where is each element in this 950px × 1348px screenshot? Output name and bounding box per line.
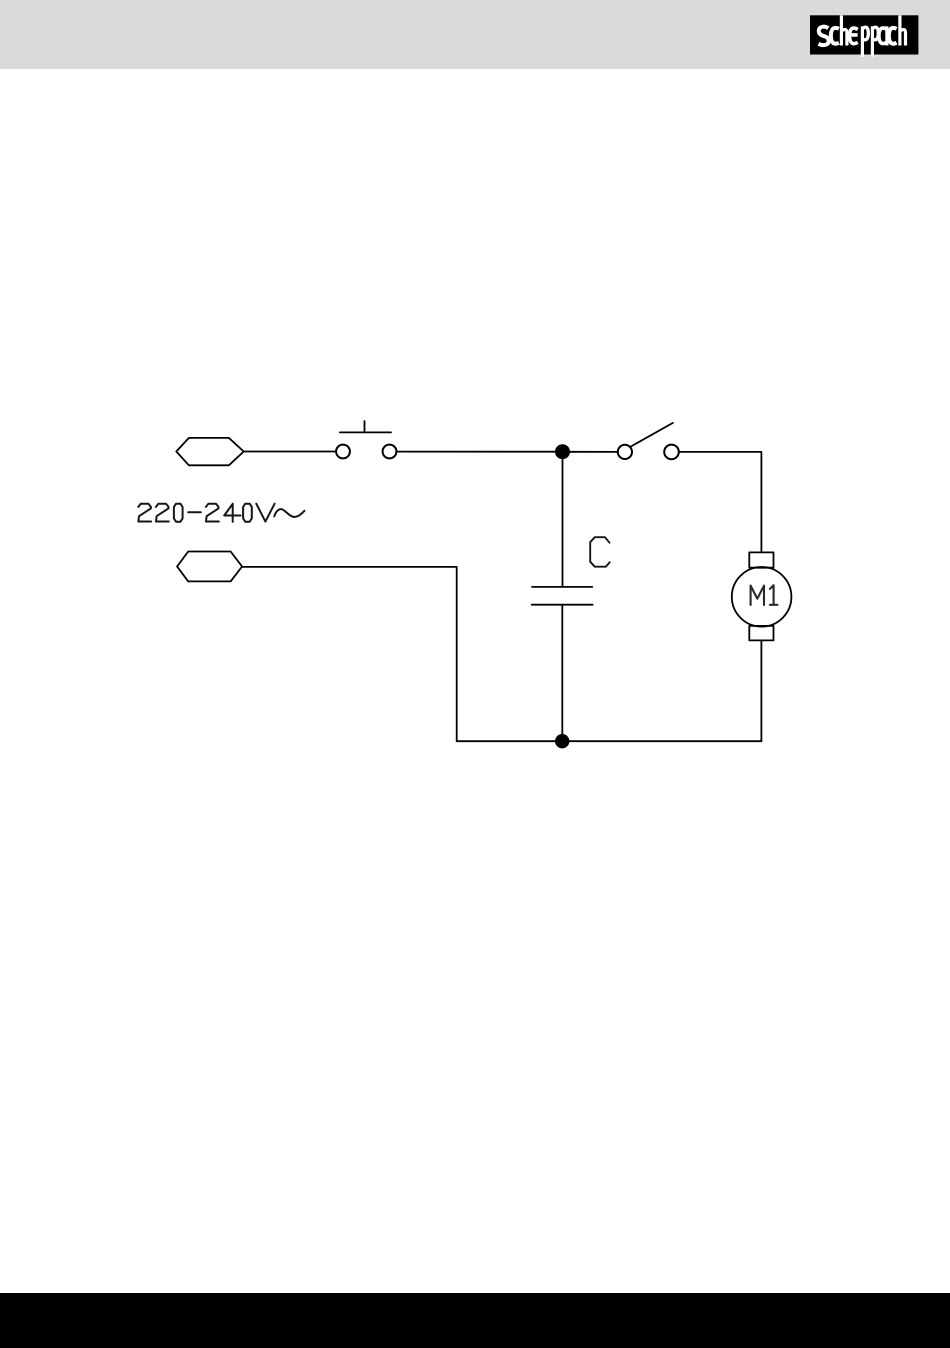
contact circle S1 left (336, 445, 350, 459)
capacitor C top plate (532, 586, 592, 588)
label 220-240V~ (138, 504, 304, 522)
wire (679, 452, 762, 553)
wire bottom rail (457, 740, 762, 742)
connector X1 (line L) (176, 438, 243, 465)
scheppach logo (0, 0, 950, 70)
label C (590, 537, 610, 567)
switch S2 blade (631, 423, 673, 447)
footer bar (0, 1293, 950, 1348)
wire (396, 451, 555, 453)
junction node bottom (555, 734, 569, 748)
connector X1 (neutral N) (177, 552, 242, 582)
wire (244, 451, 336, 453)
wire (562, 452, 564, 587)
motor M1 body (732, 567, 792, 627)
label M1 (751, 585, 778, 605)
switch S2 contact right (664, 445, 679, 460)
wire (570, 451, 618, 453)
switch S2 contact left (618, 445, 632, 459)
push button S1 (340, 421, 391, 432)
header banner (0, 0, 950, 69)
capacitor C bottom plate (532, 604, 593, 606)
contact circle S1 right (383, 445, 397, 459)
junction node top (555, 444, 570, 459)
motor M1 top terminal (749, 552, 773, 567)
wire (760, 640, 762, 741)
wire (242, 567, 457, 741)
wire (561, 605, 563, 742)
motor M1 bottom terminal (749, 626, 773, 641)
